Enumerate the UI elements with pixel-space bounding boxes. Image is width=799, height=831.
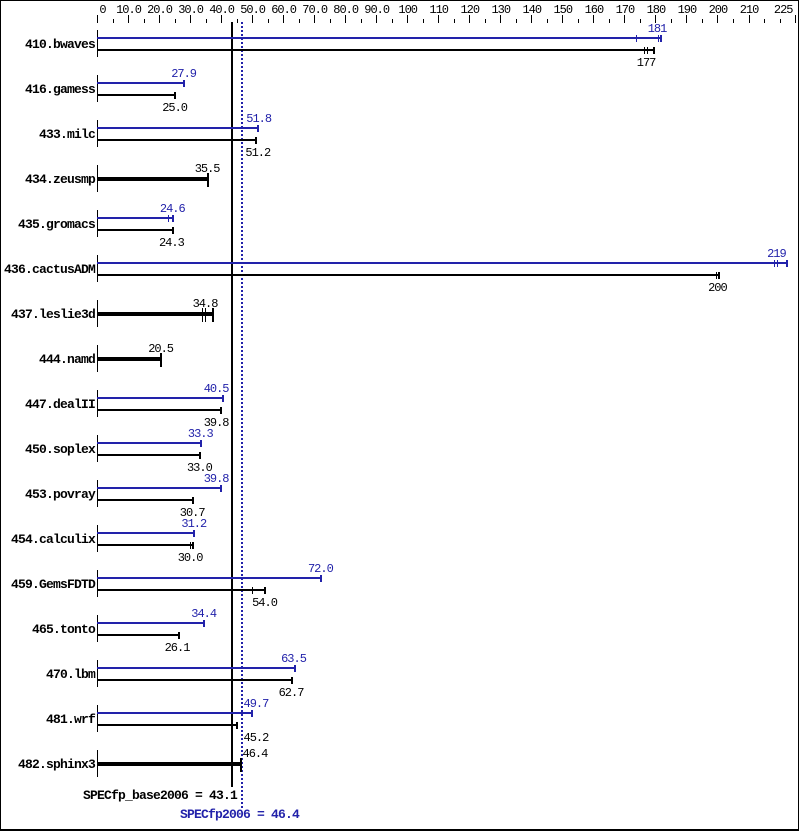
SPECfp2006 = 46.4 dotted reference line xyxy=(241,22,243,808)
row 450.soplex xyxy=(0,442,95,458)
row 453.povray xyxy=(0,487,95,503)
row 465.tonto xyxy=(0,622,95,638)
row 444.namd xyxy=(0,352,95,368)
SPECfp_base2006 = 43.1 reference line xyxy=(231,22,233,787)
row 459.GemsFDTD xyxy=(0,577,95,593)
row 410.bwaves xyxy=(0,37,95,53)
row 433.milc xyxy=(0,127,95,143)
x axis scale 0-225 xyxy=(97,15,98,23)
SPECfp_base2006 summary xyxy=(83,788,237,804)
SPECfp2006 summary xyxy=(180,807,299,823)
row 437.leslie3d xyxy=(0,307,95,323)
row 435.gromacs xyxy=(0,217,95,233)
row 436.cactusADM xyxy=(0,262,95,278)
row 470.lbm xyxy=(0,667,95,683)
row 434.zeusmp xyxy=(0,172,95,188)
row 482.sphinx3 xyxy=(0,757,95,773)
row 454.calculix xyxy=(0,532,95,548)
row 447.dealII xyxy=(0,397,95,413)
row 481.wrf xyxy=(0,712,95,728)
row 416.gamess xyxy=(0,82,95,98)
